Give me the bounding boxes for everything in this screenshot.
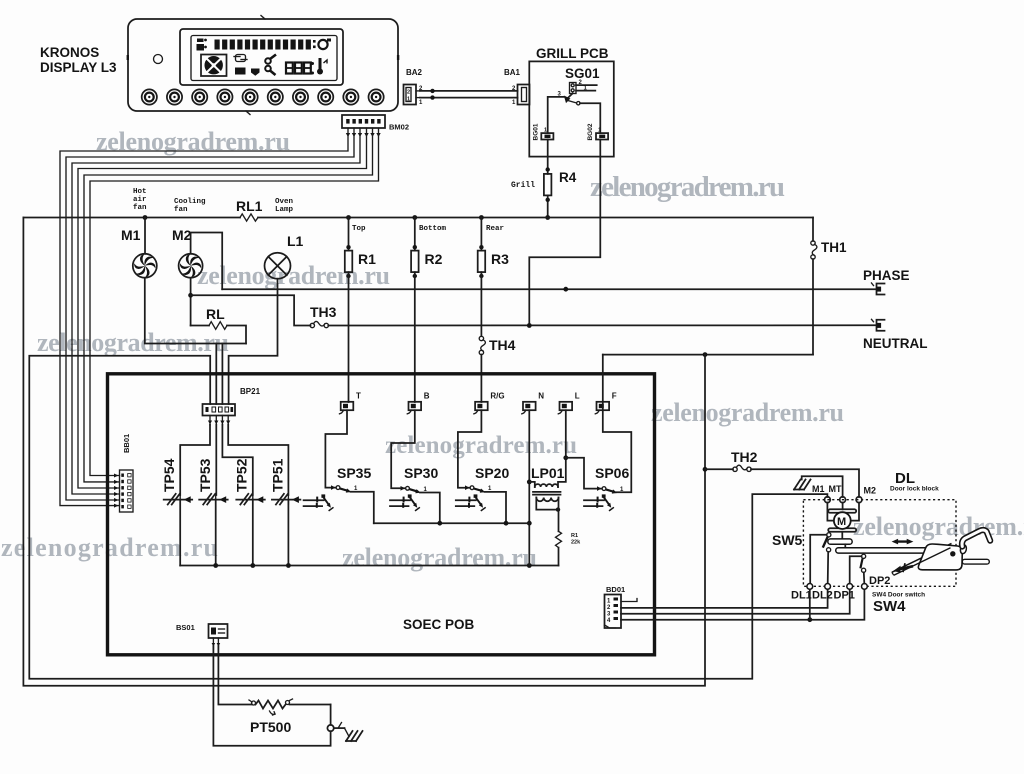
double arrow (slider movement) <box>892 539 914 545</box>
label SG01 <box>565 66 600 81</box>
svg-text:SP06: SP06 <box>595 465 629 481</box>
label R3 <box>491 251 509 267</box>
wire M2 terminal to motor <box>850 503 859 521</box>
watermark 8 <box>342 543 537 572</box>
label GRILL PCB <box>536 46 609 61</box>
label DP2 <box>869 575 890 587</box>
wire TH1 bottom line <box>603 352 813 357</box>
resistor R4 <box>544 174 552 196</box>
fuse RL1 <box>240 214 258 221</box>
label KRONOS DISPLAY L3 <box>40 45 117 75</box>
svg-text:B: B <box>424 392 430 401</box>
terminal N <box>522 402 536 414</box>
label TH2 <box>731 449 758 465</box>
BP21 pin arrows <box>208 416 230 425</box>
display mounting hole <box>154 55 163 64</box>
svg-text:Rear: Rear <box>486 225 504 233</box>
label F <box>612 392 617 401</box>
wire B to SP30 contact <box>391 410 415 488</box>
terminal T <box>340 402 354 414</box>
wire M2 junction to TH3 <box>191 295 311 325</box>
label R/G <box>490 392 504 401</box>
svg-text:1: 1 <box>544 128 547 134</box>
wire SP35 to bus <box>351 492 374 523</box>
terminal DP2 <box>862 584 868 590</box>
svg-text:zelenogradrem.ru: zelenogradrem.ru <box>853 512 1024 541</box>
svg-text:M: M <box>837 516 846 528</box>
watermark 1 <box>96 127 290 156</box>
connector BS01 <box>209 624 228 638</box>
wire BP21 pin2 to TP53 <box>215 425 217 495</box>
svg-text:SG01: SG01 <box>565 66 600 81</box>
LCD icon RE <box>235 68 246 75</box>
svg-text:KRONOS: KRONOS <box>40 45 99 60</box>
label BM02 <box>389 123 409 132</box>
BM02 pin arrows <box>346 133 381 137</box>
terminal NEUTRAL <box>872 319 885 331</box>
wire R3 to TH4 <box>480 272 482 336</box>
watermark 9 <box>853 512 1024 541</box>
wire BP21 pin3 to TP52 <box>222 425 252 495</box>
svg-text:Oven: Oven <box>275 198 294 206</box>
svg-text:TP51: TP51 <box>270 458 286 492</box>
sensor PT500 resistor <box>249 699 331 715</box>
svg-text:MT: MT <box>829 484 842 494</box>
svg-text:fan: fan <box>174 206 188 214</box>
slider link <box>844 544 846 548</box>
svg-text:DL2: DL2 <box>812 590 833 602</box>
terminal DL2 <box>825 584 831 590</box>
svg-text:SW5: SW5 <box>772 532 803 548</box>
motor M (door lock) <box>828 509 856 532</box>
svg-text:R4: R4 <box>559 170 577 185</box>
label L <box>575 392 580 401</box>
svg-text:TH3: TH3 <box>310 304 337 320</box>
wire RG to SP20 contact <box>458 410 482 488</box>
svg-text:SW4: SW4 <box>873 598 906 615</box>
switch DP2 <box>860 554 865 583</box>
terminal M1 (door lock) <box>825 497 831 503</box>
label M2 (door lock) <box>864 486 877 496</box>
wire R1 22k to bus <box>558 548 560 566</box>
svg-text:SP20: SP20 <box>475 465 509 481</box>
wire TH2 to M2 terminal <box>751 469 859 497</box>
wire TP51 to bus <box>287 500 289 566</box>
label SP06 <box>595 465 629 481</box>
svg-text:fan: fan <box>133 204 147 212</box>
svg-text:L1: L1 <box>287 233 304 249</box>
wire bus to M1 <box>144 218 146 254</box>
label BS01 <box>176 623 195 632</box>
relay contact SP30 <box>401 486 428 493</box>
svg-text:DP2: DP2 <box>869 575 890 587</box>
slider bar upper <box>828 539 852 544</box>
watermark 6 <box>385 432 577 459</box>
wire BD01 pin2 to DL2 <box>621 588 828 608</box>
svg-text:R1: R1 <box>571 533 578 539</box>
LCD icon key 2 <box>265 66 275 75</box>
LCD icon key 1 <box>265 55 276 64</box>
svg-text:M2: M2 <box>172 227 192 243</box>
label SP35 <box>337 465 371 481</box>
triac TP54 <box>164 494 193 505</box>
thermostat TH3 <box>310 321 328 327</box>
label BD01 <box>606 585 625 594</box>
wire BP21 pin4 to TP51 <box>228 425 288 495</box>
motor M2 cooling fan <box>179 254 203 278</box>
resistor R1 22k <box>556 531 582 547</box>
label R4 <box>559 170 577 185</box>
wire R2 to B terminal <box>414 272 416 402</box>
svg-text:Lamp: Lamp <box>275 206 294 214</box>
svg-text:T: T <box>356 392 361 401</box>
label SW4 Door switch <box>872 592 925 599</box>
connector BB01 <box>120 470 134 512</box>
motor M1 hot air fan <box>133 254 157 278</box>
terminal F <box>595 402 609 414</box>
svg-text:BD01: BD01 <box>606 585 625 594</box>
label RL <box>206 306 225 322</box>
wire SW5 lower to DL2 <box>827 552 830 584</box>
label DP1 <box>834 590 855 602</box>
svg-text:R3: R3 <box>491 251 509 267</box>
label BA2 <box>406 68 423 77</box>
lever over body <box>892 548 951 576</box>
LCD left icons (bell, pot) <box>197 39 207 51</box>
label BP21 <box>240 387 261 396</box>
svg-text:zelenogradrem.ru: zelenogradrem.ru <box>590 171 785 203</box>
label M1 (door lock) <box>812 484 825 494</box>
svg-text:M2: M2 <box>864 486 877 496</box>
svg-text:DL: DL <box>895 470 915 487</box>
watermark 2 <box>590 171 785 203</box>
wire TP52 to bus <box>252 500 254 566</box>
label BA1 <box>504 68 521 77</box>
lock pivot dot <box>950 551 955 556</box>
connector BD01 <box>605 595 622 629</box>
connector BP21 <box>203 404 236 416</box>
label MT <box>829 484 842 494</box>
terminal R/G <box>474 402 488 414</box>
label BB01 <box>122 434 131 453</box>
LCD 888 digits <box>286 62 314 75</box>
wire T to SP35 contact <box>325 410 347 487</box>
svg-text:RL1: RL1 <box>236 198 263 214</box>
wire triac bus <box>180 563 558 568</box>
terminal L <box>558 402 572 414</box>
label Rear <box>486 225 504 233</box>
wire BG02 down to neutral junction <box>529 140 600 326</box>
svg-text:TH2: TH2 <box>731 449 758 465</box>
wire SW5 upper to DL1 <box>810 535 827 584</box>
label Oven Lamp <box>275 198 294 214</box>
wire L1 to BP21 <box>229 279 278 404</box>
label RL1 <box>236 198 263 214</box>
wire left outer loop <box>23 218 707 686</box>
switch SG01 <box>558 80 597 105</box>
terminal M2 (door lock) <box>856 497 862 503</box>
transformer LP01 <box>529 482 560 531</box>
triac TP52 <box>236 494 264 505</box>
label Grill <box>511 181 535 190</box>
label PT500 <box>250 719 291 735</box>
triac TP51 <box>272 494 301 505</box>
connector BA1 <box>512 85 530 107</box>
wire M2 top to phase line <box>191 233 223 290</box>
label M1 <box>121 227 141 243</box>
svg-text:PT500: PT500 <box>250 719 291 735</box>
label LP01 <box>531 465 565 481</box>
wire SP30 to bus <box>420 493 440 524</box>
label TH3 <box>310 304 337 320</box>
label B <box>424 392 430 401</box>
resistor R2 <box>411 218 419 279</box>
svg-text:1: 1 <box>407 97 410 103</box>
svg-text:BP21: BP21 <box>240 387 261 396</box>
svg-text:RL: RL <box>206 306 225 322</box>
svg-text:Bottom: Bottom <box>419 225 447 233</box>
switch SW5 <box>823 533 831 552</box>
label T <box>356 392 361 401</box>
svg-text:Door lock block: Door lock block <box>890 486 939 493</box>
wire TH3 to NEUTRAL terminal <box>328 323 877 328</box>
wire TP54 to bus <box>179 500 181 566</box>
watermark 3 <box>197 261 390 290</box>
terminal PHASE <box>872 283 885 295</box>
label BG02 <box>587 123 594 140</box>
LCD bezel <box>180 29 343 85</box>
label SOEC POB <box>403 617 475 632</box>
terminal DL1 <box>807 584 813 590</box>
label BG01 <box>533 123 540 140</box>
relay coil SP20 <box>456 494 486 511</box>
svg-text:TP54: TP54 <box>161 458 177 492</box>
latch hook <box>962 530 990 546</box>
resistor R1 top <box>345 218 353 279</box>
wire L terminal down to LP01 primary <box>558 410 568 487</box>
PT500 terminal circle <box>327 705 333 732</box>
watermark 4 <box>37 328 229 357</box>
svg-text:DL1: DL1 <box>791 590 812 602</box>
svg-text:DISPLAY L3: DISPLAY L3 <box>40 60 117 75</box>
label Door lock block <box>890 486 939 493</box>
label TP51 <box>270 458 286 492</box>
svg-text:1: 1 <box>598 128 601 134</box>
wire BS01 to PT500 loop <box>213 646 330 746</box>
wire main phase bus <box>23 215 813 220</box>
label Cooling fan <box>174 198 206 214</box>
svg-text:Grill: Grill <box>511 181 535 190</box>
label Hot air fan <box>133 188 147 212</box>
label TP53 <box>197 458 213 492</box>
door lock dashed box <box>803 500 956 587</box>
label N <box>538 392 544 401</box>
wire TP53 to bus <box>215 500 217 566</box>
wire F to SP06 right <box>603 355 632 493</box>
connector BM02 <box>342 115 385 128</box>
relay contact SP35 <box>331 485 358 492</box>
grill PCB box <box>529 61 614 156</box>
svg-text:TH1: TH1 <box>821 240 847 255</box>
label TP52 <box>234 458 250 492</box>
connector BG02 <box>596 128 608 140</box>
wire ground to MT terminal <box>802 476 843 497</box>
svg-text:zelenogradrem.ru: zelenogradrem.ru <box>1 533 218 562</box>
display unit KRONOS L3 outer case <box>127 16 400 115</box>
wire M1 bottom and RL box bottom <box>145 278 246 344</box>
svg-text:GRILL PCB: GRILL PCB <box>536 46 609 61</box>
label DL1 <box>791 590 812 602</box>
LCD thermometer icon <box>317 58 327 75</box>
resistor R3 <box>478 218 486 279</box>
label DL2 <box>812 590 833 602</box>
watermark 7 <box>1 533 218 562</box>
watermark 5 <box>651 398 844 427</box>
svg-text:air: air <box>133 196 147 204</box>
svg-text:LP01: LP01 <box>531 465 565 481</box>
svg-text:SP30: SP30 <box>404 465 438 481</box>
label TH4 <box>489 337 516 353</box>
wire BD01 pin1 stub <box>621 599 637 602</box>
LCD fan icon <box>201 55 227 77</box>
connector BA2 <box>404 85 424 107</box>
label R1 <box>358 251 376 267</box>
svg-text:BM02: BM02 <box>389 123 409 132</box>
door latch lever <box>892 543 952 572</box>
wire BA2 to BA1 pin1 <box>420 95 518 99</box>
svg-text:SOEC POB: SOEC POB <box>403 617 475 632</box>
svg-text:DP1: DP1 <box>834 590 855 602</box>
svg-text:Hot: Hot <box>133 188 147 196</box>
relay coil RL <box>191 322 246 344</box>
wire RL box to BP21 pins <box>216 344 222 405</box>
relay contact SP20 <box>465 485 492 492</box>
relay coil SP06 <box>584 494 614 511</box>
wire relay bus <box>374 521 530 526</box>
label L1 <box>287 233 304 249</box>
ground (door lock) <box>794 480 811 490</box>
svg-text:BS01: BS01 <box>176 623 195 632</box>
wire phase line to PHASE terminal <box>222 287 877 292</box>
svg-text:M1: M1 <box>812 484 825 494</box>
PT500 ground lever <box>334 723 345 729</box>
ground (PT500) <box>345 728 363 741</box>
LCD right icons (colon, clock) <box>313 39 331 50</box>
terminal B <box>407 402 421 414</box>
display harness wires BM02 to BB01 <box>60 128 379 508</box>
slider bar lower (long) <box>836 548 952 553</box>
svg-text:Cooling: Cooling <box>174 198 206 206</box>
svg-text:TP52: TP52 <box>234 458 250 492</box>
thermostat TH2 <box>705 465 751 471</box>
label TP54 <box>161 458 177 492</box>
wire BD01 pin3 to DP1 <box>621 588 850 614</box>
wire DL1 down to pin4 line <box>809 588 811 619</box>
wire SP20 to bus <box>485 492 507 523</box>
svg-text:M1: M1 <box>121 227 141 243</box>
wire SG01 to BG01 <box>548 97 565 133</box>
svg-text:R1: R1 <box>358 251 376 267</box>
terminal DP1 <box>847 584 853 590</box>
lock body <box>918 544 962 570</box>
label Top <box>352 225 366 233</box>
wire second left loop to BP21 <box>29 356 827 679</box>
svg-text:zelenogradrem.ru: zelenogradrem.ru <box>342 543 537 572</box>
wire BD01 pin4 to DL1 and DP2 <box>621 588 864 622</box>
wire R1 to T terminal <box>348 272 350 402</box>
label TH1 <box>821 240 847 255</box>
label SW5 <box>772 532 803 548</box>
label SP20 <box>475 465 509 481</box>
svg-text:zelenogradrem.ru: zelenogradrem.ru <box>385 432 577 459</box>
svg-text:L: L <box>575 392 580 401</box>
svg-text:NEUTRAL: NEUTRAL <box>863 336 928 351</box>
svg-text:TP53: TP53 <box>197 458 213 492</box>
terminal MT <box>840 497 846 503</box>
wire R4 to main bus <box>545 195 550 220</box>
svg-text:SP35: SP35 <box>337 465 371 481</box>
relay coil SP35 <box>304 494 334 511</box>
svg-text:2: 2 <box>407 90 410 96</box>
svg-text:BA2: BA2 <box>406 68 423 77</box>
lock rod right <box>962 559 989 564</box>
label DL <box>895 470 915 487</box>
relay contact SP06 <box>597 486 624 493</box>
wire M2 bottom junction <box>188 278 193 326</box>
lamp L1 <box>265 253 291 279</box>
LCD icon shield arrow <box>251 69 260 76</box>
svg-text:Top: Top <box>352 225 366 233</box>
wire N terminal down <box>527 410 532 565</box>
wire TH4 to RG terminal <box>480 355 482 403</box>
svg-text:F: F <box>612 392 617 401</box>
thermostat TH4 <box>479 336 485 354</box>
wire M1 terminal to motor <box>827 503 834 521</box>
door push arrow <box>893 563 913 572</box>
svg-text:22k: 22k <box>571 540 581 546</box>
svg-text:BB01: BB01 <box>122 434 131 453</box>
LCD icon arrows <box>234 55 247 62</box>
BS01 pins <box>212 638 221 649</box>
thermostat TH1 <box>811 218 817 355</box>
wire MT terminal to motor <box>842 503 844 510</box>
wire BA2 to BA1 pin2 <box>420 89 518 93</box>
wire BG01 to R4 <box>546 140 550 174</box>
svg-text:BG02: BG02 <box>587 123 594 140</box>
svg-text:R2: R2 <box>425 251 443 267</box>
label SW4 <box>873 598 906 615</box>
PCB SOEC POB box <box>108 374 655 655</box>
wire SG01 contact to BG02 <box>580 103 600 133</box>
svg-text:BA1: BA1 <box>504 68 521 77</box>
svg-text:PHASE: PHASE <box>863 268 910 283</box>
connector BG01 <box>541 128 553 140</box>
label SP30 <box>404 465 438 481</box>
svg-text:R/G: R/G <box>490 392 504 401</box>
relay coil SP30 <box>390 494 420 511</box>
motor to slider link <box>841 532 843 540</box>
svg-text:TH4: TH4 <box>489 337 516 353</box>
svg-text:zelenogradrem.ru: zelenogradrem.ru <box>651 398 844 427</box>
display buttons row <box>142 89 384 104</box>
hook knob <box>960 544 968 554</box>
label PHASE <box>863 268 910 283</box>
label M2 <box>172 227 192 243</box>
label NEUTRAL <box>863 336 928 351</box>
svg-text:N: N <box>538 392 544 401</box>
triac TP53 <box>199 494 228 505</box>
wire DP1 to DP2 switch <box>850 556 862 583</box>
